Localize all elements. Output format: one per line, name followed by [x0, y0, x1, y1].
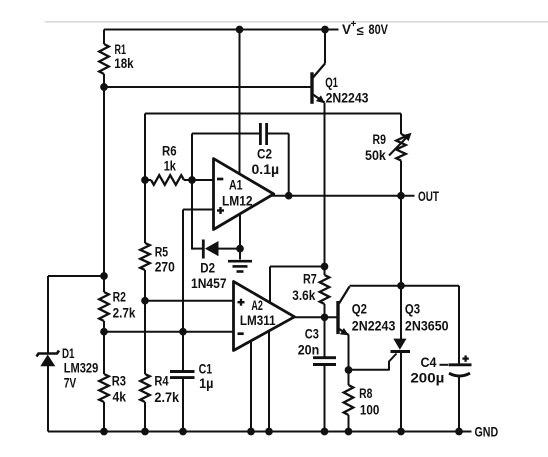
wire C4 bottom lead [458, 376, 460, 432]
capacitor C3 [313, 356, 336, 359]
ground [228, 260, 252, 263]
node OUT junction [397, 192, 405, 200]
wire boost rail (R6/Q1-emitter/R9) [145, 113, 401, 115]
wire A1 plus riser (to A2 - net) [182, 210, 184, 371]
svg-text:A2: A2 [251, 298, 263, 313]
svg-text:2N2243: 2N2243 [352, 318, 396, 333]
op-amp A2 LM311 [234, 282, 295, 351]
svg-text:Q1: Q1 [325, 75, 338, 90]
svg-text:2.7k: 2.7k [113, 306, 136, 321]
svg-text:R4: R4 [154, 374, 169, 389]
node C2 feedback junction on output [285, 192, 293, 200]
wire A2 inverting input [104, 331, 234, 333]
capacitor C4 (polarized) [449, 363, 472, 366]
wire Q3 gate link [349, 354, 397, 370]
node V+ junction (Q1 collector) [321, 26, 329, 34]
node V+ junction (A1 supply) [236, 26, 244, 34]
svg-text:LM12: LM12 [222, 193, 253, 208]
node Q2 emitter / R8 / Q3 gate junction [345, 366, 353, 374]
svg-text:Q3: Q3 [405, 302, 421, 317]
svg-text:100: 100 [360, 402, 380, 417]
wire D2 anode link [218, 248, 241, 250]
pin A2 minus marker [238, 332, 244, 335]
wire A1 output (OUT net) [272, 195, 415, 197]
wire C2 feedback left riser [191, 134, 193, 250]
wire A2 supply pin [269, 267, 271, 303]
svg-text:C3: C3 [305, 327, 319, 342]
wire left column (R1 bottom to R2 top) [103, 74, 105, 292]
wire Q1 base [104, 86, 311, 88]
pin A1 minus marker [217, 178, 223, 181]
svg-text:A1: A1 [229, 178, 243, 193]
svg-text:D1: D1 [62, 346, 75, 361]
capacitor C1 [170, 370, 195, 373]
resistor R5 [140, 243, 150, 270]
wire A2 output to Q2 base [293, 316, 337, 318]
wire Q3 anode lead [400, 286, 402, 339]
transistor Q1 2N2243 [310, 72, 313, 104]
wire R7 bottom lead [324, 304, 326, 317]
resistor R7 [324, 267, 326, 276]
transistor Q2 2N2243 [336, 301, 339, 334]
wire R9 bottom to OUT and Q3 [400, 161, 402, 286]
zener diode D1 [37, 351, 60, 357]
wire D2 cathode link [192, 248, 202, 250]
node R2/R3 divider junction (A2 - net) [100, 328, 108, 336]
wire R8 top lead [348, 370, 350, 385]
wire A2 ground pin 2 [268, 331, 270, 432]
resistor R4 [140, 374, 150, 402]
node A1 inverting input junction [188, 176, 196, 184]
wire R3 bottom lead [103, 402, 105, 432]
node R5/R4 divider junction (A2 + net) [141, 297, 149, 305]
svg-text:2.7k: 2.7k [154, 390, 179, 405]
svg-text:R5: R5 [155, 244, 169, 259]
svg-text:1N457: 1N457 [191, 276, 227, 291]
svg-text:2N2243: 2N2243 [326, 90, 369, 105]
node Q3 anode junction [397, 282, 405, 290]
svg-text:C2: C2 [257, 147, 272, 162]
node ground junctions [100, 428, 108, 436]
wire A1 supply pin from V+ [239, 30, 241, 175]
svg-text:R9: R9 [373, 132, 386, 147]
wire A1 inverting input [192, 179, 214, 181]
wire R5 bottom segment [144, 270, 146, 374]
wire C1 bottom lead [182, 378, 184, 432]
node R7 top junction [321, 263, 329, 271]
svg-text:R6: R6 [162, 144, 177, 159]
wire C3 top lead [324, 317, 326, 357]
wire R4 bottom lead [144, 402, 146, 432]
wire Q2 emitter drop [348, 335, 350, 371]
resistor R3 [99, 374, 109, 402]
svg-text:≤: ≤ [357, 23, 364, 38]
svg-text:LM329: LM329 [64, 361, 99, 376]
svg-text:2N3650: 2N3650 [405, 318, 449, 333]
wire R5 column top segment [144, 114, 146, 244]
wire A1 non-inverting input [183, 209, 214, 211]
wire C2 to output riser [288, 134, 290, 196]
node D2/ground junction [236, 245, 244, 253]
wire R1 top lead [103, 30, 105, 45]
node D1 tap junction [100, 272, 108, 280]
svg-text:OUT: OUT [418, 189, 440, 204]
SCR Q3 2N3650 [393, 339, 406, 350]
svg-text:270: 270 [155, 259, 175, 274]
wire C4 top lead [458, 286, 460, 365]
wire C3 bottom lead [324, 365, 326, 432]
node C1 junction on A2 - net [179, 328, 187, 336]
wire Q1 emitter drop to R7 [324, 103, 326, 267]
svg-text:R3: R3 [112, 374, 127, 389]
wire C2 left link [192, 133, 259, 135]
resistor R1 [99, 44, 109, 74]
wire R8 bottom lead [348, 415, 350, 432]
wire D1 anode lead [47, 366, 49, 432]
pin A1 plus marker [217, 209, 224, 211]
wire A2 non-inverting input [145, 300, 234, 302]
wire D1 top link [48, 275, 104, 277]
wire R2 bottom to R3 top [103, 321, 105, 374]
label C4 + polarity [462, 357, 468, 359]
rheostat R9 [396, 134, 406, 161]
wire Q1 collector to V+ [324, 30, 326, 64]
pin A2 plus marker [238, 301, 245, 303]
svg-text:20n: 20n [298, 343, 320, 358]
svg-text:50k: 50k [365, 148, 386, 163]
svg-text:R2: R2 [113, 289, 126, 304]
wire D1 cathode lead [47, 276, 49, 353]
wire R6 right lead [184, 179, 192, 181]
capacitor C2 [259, 123, 262, 145]
wire R6 left lead [145, 179, 151, 181]
svg-text:200µ: 200µ [410, 371, 444, 386]
wire ground bus (GND net) [48, 431, 472, 433]
wire Q3 cathode lead [400, 352, 402, 432]
svg-text:C1: C1 [199, 362, 213, 377]
resistor R6 [151, 175, 184, 185]
wire R9 top lead [400, 114, 402, 135]
diode D2 1N457 [202, 240, 205, 259]
svg-text:7V: 7V [64, 376, 77, 391]
wire A1 V- pin to ground node [239, 214, 241, 260]
svg-text:R7: R7 [303, 271, 317, 286]
wire R7 top link to A2 supply [270, 266, 325, 268]
svg-text:0.1µ: 0.1µ [252, 162, 280, 177]
svg-text:D2: D2 [200, 261, 215, 276]
wire A2 ground pin 1 [250, 341, 252, 432]
svg-text:1µ: 1µ [199, 376, 213, 391]
svg-text:Q2: Q2 [352, 302, 367, 317]
node R6 left junction [141, 176, 149, 184]
node R1/Q1-base junction [100, 83, 108, 91]
svg-text:4k: 4k [113, 389, 127, 404]
svg-text:18k: 18k [114, 56, 134, 71]
op-amp A1 LM12 [214, 159, 274, 230]
svg-text:R8: R8 [359, 386, 373, 401]
resistor R2 [99, 292, 109, 321]
resistor R8 [344, 385, 354, 415]
svg-text:GND: GND [475, 425, 499, 440]
wire V+ top rail [104, 29, 339, 31]
svg-text:3.6k: 3.6k [292, 288, 315, 303]
svg-text:LM311: LM311 [240, 313, 276, 328]
node A2 output / R7 / C3 junction [321, 313, 329, 321]
svg-text:80V: 80V [369, 22, 389, 37]
wire C2 right link [268, 133, 289, 135]
svg-text:C4: C4 [421, 355, 437, 370]
wire Q2 collector rail [350, 285, 460, 287]
svg-text:1k: 1k [164, 159, 177, 174]
svg-text:R1: R1 [115, 42, 127, 57]
